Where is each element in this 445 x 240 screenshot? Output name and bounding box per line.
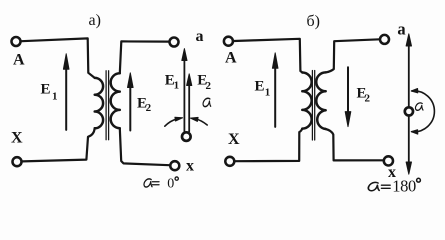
label E1 (fig a) (41, 81, 58, 102)
svg-text:A: A (13, 52, 25, 69)
angle arc 180 (fig b) (412, 91, 435, 132)
terminal x (fig b) (384, 156, 393, 165)
phasor origin circle (fig a) (182, 132, 191, 141)
phasor label E1 (fig a) (165, 73, 179, 92)
primary winding L1 (fig a) (95, 78, 103, 128)
label E2 (fig b) (357, 85, 371, 104)
terminal X (fig a) (13, 157, 22, 166)
primary winding L1 (fig b) (302, 73, 311, 129)
svg-text:A: A (225, 50, 237, 67)
wire primary bottom to X (fig a) (22, 128, 94, 161)
svg-text:a: a (397, 20, 405, 39)
EMF arrow E2 (fig a) (129, 87, 131, 131)
core line 1 (fig a) (105, 71, 107, 140)
phasor origin circle (fig b) (405, 107, 413, 115)
svg-text:x: x (186, 157, 194, 174)
phasor up arrowhead a (fig b) (406, 34, 411, 46)
svg-text:2: 2 (206, 80, 212, 92)
label X (fig b) (228, 131, 240, 148)
wire secondary top to terminal a (fig a) (120, 41, 169, 73)
terminal A (fig b) (224, 37, 233, 46)
svg-text:а): а) (89, 12, 101, 29)
formula alpha = 0 deg (fig a) (144, 179, 152, 187)
svg-text:a: a (196, 28, 204, 45)
label E1 (fig b) (255, 78, 271, 98)
wire secondary top to terminal a (fig b) (326, 39, 380, 72)
label alpha in circle (fig b) (415, 103, 423, 110)
secondary winding L2 (fig b) (316, 72, 325, 129)
svg-text:0: 0 (167, 176, 174, 191)
wire primary bottom to X (fig b) (235, 129, 302, 162)
figure label а) (89, 12, 101, 29)
label x (fig b) (388, 164, 396, 181)
svg-text:2: 2 (146, 102, 152, 114)
phasor axis line (fig b) (408, 44, 410, 164)
phasor E1 arrow (fig a) (183, 60, 185, 131)
label a (fig a) (196, 28, 204, 45)
svg-text:X: X (11, 129, 23, 146)
wire A to primary top (fig a) (22, 38, 95, 78)
svg-text:E: E (255, 78, 265, 94)
phasor E2 arrow (fig a) (188, 85, 190, 131)
terminal x (fig a) (170, 161, 179, 170)
angle arc left (fig a) (165, 119, 177, 126)
label a (fig b phasor) (397, 20, 405, 39)
wire secondary bottom to terminal x (fig a) (120, 128, 170, 165)
label A (fig b) (225, 50, 237, 67)
formula alpha = 180 deg (fig b) (368, 182, 379, 190)
angle arc right (fig a) (196, 119, 207, 125)
label x (fig a) (186, 157, 194, 174)
label E2 (fig a) (137, 96, 152, 115)
core line 2 (fig b) (314, 71, 316, 141)
svg-text:1: 1 (265, 87, 271, 99)
arc arrowhead top (fig b) (411, 89, 418, 93)
arc arrowhead bottom (fig b) (411, 130, 418, 134)
terminal X (fig b) (225, 157, 234, 166)
terminal A (fig a) (12, 37, 21, 46)
terminal a (fig b) (380, 35, 389, 44)
phasor down arrowhead x (fig b) (406, 162, 411, 174)
EMF arrow E2 down (fig b) (347, 67, 349, 112)
svg-text:2: 2 (365, 93, 371, 105)
svg-text:E: E (41, 81, 51, 97)
svg-text:180: 180 (392, 176, 416, 195)
svg-text:X: X (228, 131, 240, 148)
figure label б) (307, 13, 320, 30)
svg-text:1: 1 (174, 80, 180, 92)
core line 1 (fig b) (311, 71, 313, 141)
label alpha (fig a phasor) (203, 98, 211, 106)
EMF arrow E1 (fig a) (65, 68, 67, 130)
label A (fig a) (13, 52, 25, 69)
EMF arrow E1 (fig b) (274, 67, 276, 127)
core line 2 (fig a) (108, 71, 110, 140)
svg-text:б): б) (307, 13, 320, 30)
secondary winding L2 (fig a) (111, 73, 120, 128)
wire A to primary top (fig b) (234, 39, 302, 73)
wire secondary bottom to terminal x (fig b) (326, 129, 383, 160)
svg-text:1: 1 (52, 91, 58, 103)
label X (fig a) (11, 129, 23, 146)
terminal a (fig a) (170, 38, 179, 47)
phasor label E2 (fig a) (197, 73, 211, 93)
